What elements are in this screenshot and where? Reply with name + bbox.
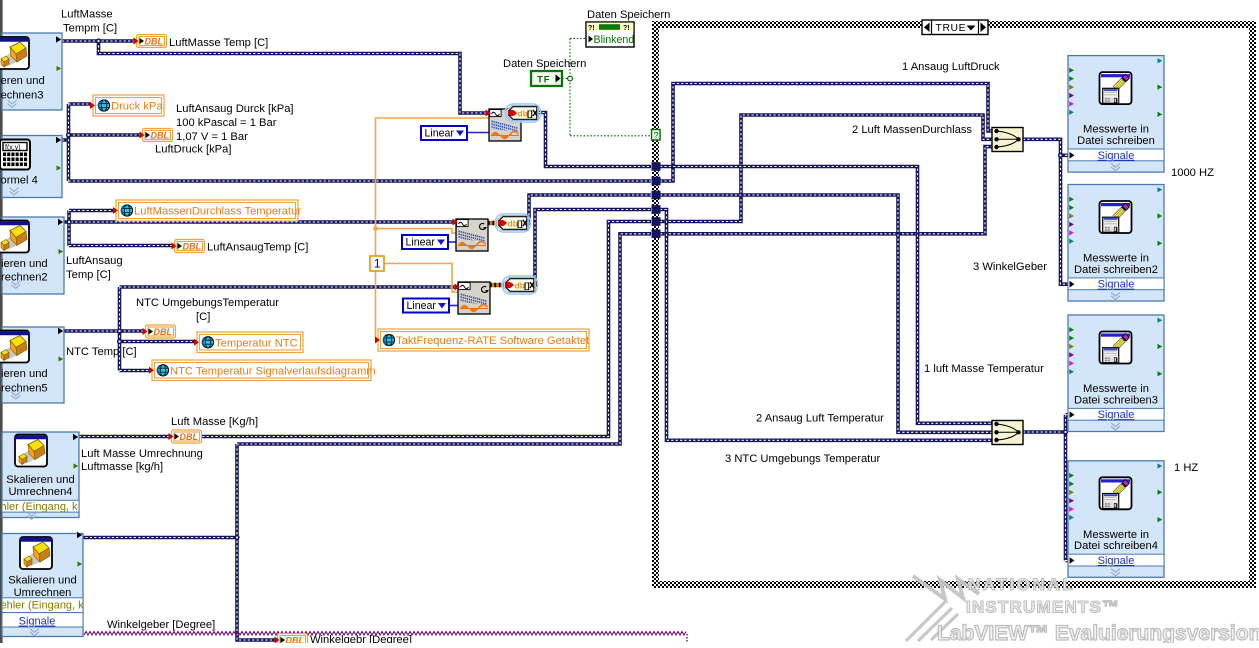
watermark NATIONAL INSTRUMENTS	[937, 575, 1259, 645]
express vi Skalieren und Umrechnen3	[2, 33, 62, 110]
express vi Skalieren und Umrechnen2	[2, 217, 64, 294]
case selector label TRUE	[922, 20, 988, 35]
Linear dropdown 3	[403, 299, 449, 313]
svg-text:Daten Speichern: Daten Speichern	[587, 9, 670, 21]
express vi Messwerte in Datei schreiben	[1068, 56, 1164, 173]
svg-text:echnen3: echnen3	[1, 89, 44, 101]
orange junction	[373, 226, 378, 231]
global variable TaktFrequenz-RATE Software Getaktet	[378, 329, 589, 351]
svg-text:Skalieren und: Skalieren und	[8, 575, 76, 587]
merge signals node 1	[992, 128, 1023, 152]
svg-text:Signale: Signale	[19, 616, 56, 628]
purple dotted vertical	[686, 634, 688, 643]
svg-text:TF: TF	[537, 75, 551, 86]
svg-text:Signale: Signale	[1098, 555, 1135, 567]
DBL indicator NTC	[143, 325, 176, 338]
svg-text:2 Ansaug Luft Temperatur: 2 Ansaug Luft Temperatur	[756, 413, 884, 425]
svg-text:3 WinkelGeber: 3 WinkelGeber	[973, 261, 1047, 273]
global variable Temperatur NTC	[197, 332, 303, 353]
wire W16: merge1 output to Messwerte1/2 Signale	[1023, 139, 1068, 284]
boolean indicator Blinkend	[586, 22, 634, 47]
svg-text:NTC UmgebungsTemperatur: NTC UmgebungsTemperatur	[136, 297, 279, 309]
blue wire Linear3-node3	[449, 305, 458, 307]
express vi Skalieren und Umrechnen4	[2, 432, 79, 518]
wire W8: badge2 out to tunnel T3	[528, 195, 651, 223]
wire W2: Formel4 output branches	[62, 138, 69, 142]
svg-text:1: 1	[374, 259, 380, 271]
svg-text:Messwerte in: Messwerte in	[1083, 124, 1149, 136]
blue wire Linear1-node1	[467, 132, 489, 134]
wire W9: badge3 out to tunnel T4	[534, 210, 651, 286]
svg-text:Temp [C]: Temp [C]	[66, 269, 111, 281]
wire W17: merge2 output to Messwerte3/4 Signale	[1023, 430, 1066, 434]
svg-text:NATIONAL: NATIONAL	[968, 575, 1075, 594]
express vi Messwerte in Datei schreiben2	[1068, 185, 1164, 302]
svg-text:ehler (Eingang, k: ehler (Eingang, k	[1, 599, 85, 611]
wire W3: Skalieren2 output to global, node2, DBL LuftAnsaugTemp	[62, 220, 456, 224]
svg-text:Messwerte in: Messwerte in	[1083, 253, 1149, 265]
convert node 3	[458, 282, 490, 314]
wire W13: tunnel T1 to merge2 input1 (1 luft Masse Temperatur)	[660, 167, 993, 424]
svg-text:Datei schreiben2: Datei schreiben2	[1074, 264, 1158, 276]
express vi Messwerte in Datei schreiben4	[1068, 461, 1164, 578]
wire W1: Skalieren3 output to DBL LuftMasse Temp and down to node1	[62, 39, 136, 43]
svg-text:Skalieren und: Skalieren und	[6, 474, 74, 486]
orange wire: TaktFrequenz-RATE global to convert nodes	[376, 118, 490, 338]
blue wire Linear2-node2	[448, 241, 456, 243]
wire W6: Winkelgeber to tunnel T6 and DBL Winkelgebr	[81, 536, 237, 540]
svg-text:Datei schreiben3: Datei schreiben3	[1074, 394, 1158, 406]
svg-text:Signale: Signale	[1098, 409, 1135, 421]
wire W15: tunnel T4 to merge2 input3 (3 NTC Umgebungs Temperatur)	[660, 210, 993, 441]
svg-text:hler (Eingang, k: hler (Eingang, k	[1, 501, 79, 513]
svg-text:Winkelgebr [Degree]: Winkelgebr [Degree]	[310, 634, 412, 643]
svg-text:2 Luft MassenDurchlass: 2 Luft MassenDurchlass	[852, 124, 972, 136]
DBL indicator LuftAnsaugTemp	[172, 240, 205, 253]
svg-text:TaktFrequenz-RATE Software Get: TaktFrequenz-RATE Software Getaktet	[396, 335, 590, 347]
svg-text:TRUE: TRUE	[936, 23, 967, 34]
svg-text:1 Ansaug LuftDruck: 1 Ansaug LuftDruck	[902, 61, 1000, 73]
svg-text:Temperatur NTC: Temperatur NTC	[215, 337, 298, 349]
merge signals node 2	[992, 421, 1023, 445]
svg-text:rechnen5: rechnen5	[1, 382, 48, 394]
svg-text:LuftDruck [kPa]: LuftDruck [kPa]	[155, 144, 231, 156]
convert node 2	[456, 219, 488, 251]
svg-text:Tempm [C]: Tempm [C]	[63, 23, 117, 35]
global variable NTC Temperatur Signalverlaufsdiagramm	[152, 360, 371, 381]
svg-text:LuftMasse Temp [C]: LuftMasse Temp [C]	[169, 37, 268, 49]
watermark NI eagle	[906, 576, 979, 641]
svg-text:?: ?	[654, 131, 659, 141]
express vi Skalieren und Umrechnen	[2, 534, 83, 637]
wire W10: tunnel T2 to merge1 input1 (1 Ansaug LuftDruck)	[660, 84, 993, 182]
express vi Skalieren und Umrechnen5	[2, 327, 64, 403]
convert badge 2	[495, 214, 530, 232]
svg-text:Luftmasse [kg/h]: Luftmasse [kg/h]	[81, 461, 163, 473]
svg-text:Signale: Signale	[1098, 279, 1135, 291]
wire W12: tunnel T6 to merge1 input3 (3 WinkelGeber)	[660, 147, 993, 234]
boolean control Daten Speichern TF	[531, 71, 562, 86]
svg-text:Datei schreiben4: Datei schreiben4	[1074, 540, 1158, 552]
svg-text:1000 HZ: 1000 HZ	[1171, 167, 1214, 179]
wire W11: tunnel T5 to merge1 input2 (2 Luft MassenDurchlass)	[660, 115, 993, 222]
convert badge 1	[505, 104, 540, 122]
svg-text:NTC Temp [C]: NTC Temp [C]	[66, 346, 137, 358]
svg-text:100 kPascal = 1 Bar: 100 kPascal = 1 Bar	[176, 117, 277, 129]
svg-text:?!: ?!	[588, 25, 595, 32]
wire W4: NTC Skalieren5 output branches	[62, 329, 147, 333]
svg-text:Umrechnen4: Umrechnen4	[8, 486, 72, 498]
purple zigzag error/cluster wire	[84, 632, 686, 636]
svg-text:ieren und: ieren und	[1, 368, 48, 380]
global variable LuftMassenDurchlass Temperatur	[116, 200, 298, 221]
svg-text:1,07 V = 1 Bar: 1,07 V = 1 Bar	[176, 131, 248, 143]
convert badge 3	[502, 276, 537, 294]
wire W5: Luft Masse kg/h to tunnel T5	[79, 222, 651, 437]
Linear dropdown 1	[421, 126, 467, 140]
svg-text:Signale: Signale	[1098, 150, 1135, 162]
DBL indicator LuftMasse Temp [C]	[134, 35, 167, 48]
DBL indicator LuftDruck	[140, 129, 173, 142]
svg-text:Daten Speichern: Daten Speichern	[503, 58, 586, 70]
svg-text:LabVIEW™ Evaluierungsversion: LabVIEW™ Evaluierungsversion	[937, 622, 1259, 643]
svg-text:Datei schreiben: Datei schreiben	[1077, 135, 1155, 147]
hatched wire node3-badge3	[490, 283, 506, 288]
svg-text:Blinkend: Blinkend	[594, 34, 635, 46]
svg-text:1 luft Masse Temperatur: 1 luft Masse Temperatur	[924, 363, 1044, 375]
svg-text:NTC Temperatur Signalverlaufsd: NTC Temperatur Signalverlaufsdiagramm	[170, 365, 376, 377]
Linear dropdown 2	[402, 235, 448, 249]
wire W7: badge1 out to tunnel T1	[538, 113, 651, 167]
svg-text:Druck kPa: Druck kPa	[111, 101, 163, 113]
svg-text:LuftAnsaugTemp [C]: LuftAnsaugTemp [C]	[207, 242, 308, 254]
hatched wire node2-badge2	[488, 221, 500, 226]
svg-text:3 NTC Umgebungs Temperatur: 3 NTC Umgebungs Temperatur	[725, 453, 881, 465]
svg-text:rechnen2: rechnen2	[1, 271, 48, 283]
svg-text:Luft Masse Umrechnung: Luft Masse Umrechnung	[81, 448, 203, 460]
left window edge bar	[0, 0, 3, 643]
wire W14: tunnel T3 to merge2 input2 (2 Ansaug Luft Temperatur)	[660, 195, 993, 432]
svg-text:ieren und: ieren und	[1, 258, 48, 270]
boolean ? tunnel	[652, 130, 661, 141]
case structure border (TRUE case)	[652, 21, 1256, 28]
svg-text:LuftAnsaug: LuftAnsaug	[66, 255, 123, 267]
svg-text:LuftMasse: LuftMasse	[61, 9, 113, 21]
orange wire from constant 1 to node3	[384, 264, 458, 293]
DBL indicator Luft Masse	[169, 430, 202, 443]
green dotted wire: Daten Speichern TF to Blinkend and case tunnel	[562, 38, 651, 135]
express vi Formel 4	[2, 136, 62, 198]
junction on W1	[96, 38, 101, 43]
svg-text:LuftMassenDurchlass Temperatur: LuftMassenDurchlass Temperatur	[134, 206, 301, 218]
case tunnels on left border	[652, 162, 661, 171]
global variable Druck kPa	[93, 95, 164, 116]
svg-text:INSTRUMENTS™: INSTRUMENTS™	[966, 598, 1120, 617]
svg-text:eren und: eren und	[1, 75, 45, 87]
svg-text:Winkelgeber [Degree]: Winkelgeber [Degree]	[107, 619, 215, 631]
svg-text:?!: ?!	[623, 25, 630, 32]
svg-text:Messwerte in: Messwerte in	[1083, 529, 1149, 541]
numeric constant 1	[370, 256, 384, 271]
svg-text:Luft Masse [Kg/h]: Luft Masse [Kg/h]	[171, 416, 258, 428]
svg-text:1 HZ: 1 HZ	[1174, 462, 1198, 474]
svg-text:[C]: [C]	[196, 311, 210, 323]
svg-text:Messwerte in: Messwerte in	[1083, 383, 1149, 395]
svg-text:LuftAnsaug Durck [kPa]: LuftAnsaug Durck [kPa]	[176, 103, 294, 115]
express vi Messwerte in Datei schreiben3	[1068, 315, 1164, 432]
DBL indicator Winkelgebr	[275, 634, 308, 647]
convert node 1 (waveform)	[489, 109, 521, 141]
svg-text:ormel 4: ormel 4	[1, 175, 38, 187]
